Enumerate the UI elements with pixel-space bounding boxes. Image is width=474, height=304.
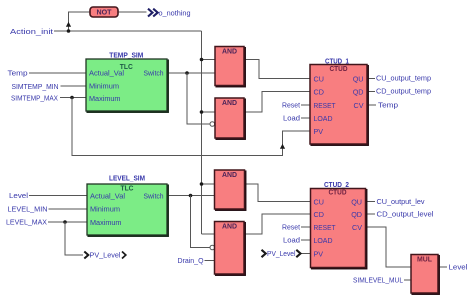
svg-text:CD_output_level: CD_output_level xyxy=(377,210,434,219)
CTUD_1 block xyxy=(310,56,368,145)
CTUD_2 block xyxy=(311,180,367,269)
svg-text:AND: AND xyxy=(222,98,237,107)
svg-text:CV: CV xyxy=(354,101,364,110)
svg-text:Load: Load xyxy=(283,236,300,245)
svg-text:AND: AND xyxy=(222,221,237,230)
svg-text:CD_output_temp: CD_output_temp xyxy=(376,87,431,96)
wire MUL output xyxy=(438,266,447,268)
AND gate U1 xyxy=(215,46,245,86)
wire PV_Level jump to CTUD_2 PV xyxy=(302,253,311,255)
svg-text:Maximum: Maximum xyxy=(90,218,122,227)
junction AND3 in1 xyxy=(200,182,204,186)
svg-text:Temp: Temp xyxy=(8,69,28,78)
svg-text:Minimum: Minimum xyxy=(89,82,119,91)
svg-text:CV: CV xyxy=(352,223,362,232)
svg-text:Reset: Reset xyxy=(282,101,300,110)
svg-text:Action_init: Action_init xyxy=(10,27,53,36)
svg-text:SIMLEVEL_MUL: SIMLEVEL_MUL xyxy=(353,276,403,285)
wire branch up to NOT input xyxy=(69,12,91,31)
wire AND1 out to CTUD_1 CU xyxy=(244,60,310,79)
svg-text:QU: QU xyxy=(351,198,362,207)
wire Load to CTUD_2 xyxy=(301,239,311,241)
svg-text:Maximum: Maximum xyxy=(89,94,121,103)
wire Level input xyxy=(29,195,87,197)
svg-text:Level: Level xyxy=(449,263,468,272)
svg-text:MUL: MUL xyxy=(417,254,433,263)
junction Switch level xyxy=(189,194,193,198)
svg-text:Temp: Temp xyxy=(378,101,398,110)
svg-text:Switch: Switch xyxy=(144,69,164,78)
svg-text:o_nothing: o_nothing xyxy=(159,8,191,17)
svg-text:RESET: RESET xyxy=(314,101,337,110)
LEVEL_SIM block xyxy=(87,173,168,236)
wire AND4 out to CTUD_2 CD xyxy=(244,214,311,234)
svg-text:QD: QD xyxy=(353,88,364,97)
svg-text:SIMTEMP_MAX: SIMTEMP_MAX xyxy=(11,93,58,102)
wire to AND1 in1 xyxy=(202,59,216,61)
svg-text:TEMP_SIM: TEMP_SIM xyxy=(109,50,143,59)
wire NOT output xyxy=(118,11,147,13)
MUL block xyxy=(411,254,439,294)
wire LEVEL_MAX to PV_Level jump xyxy=(65,222,83,255)
wire CTUD_1 QD output xyxy=(367,91,375,93)
svg-text:RESET: RESET xyxy=(314,223,337,232)
svg-text:AND: AND xyxy=(222,170,237,179)
svg-text:Actual_Val: Actual_Val xyxy=(90,191,125,200)
svg-text:CTUD: CTUD xyxy=(330,64,348,73)
wire SIMLEVEL_MUL to MUL in2 xyxy=(404,279,411,281)
wire CTUD_2 QD output xyxy=(366,213,376,215)
AND gate U2 xyxy=(215,98,245,139)
AND gate U3 xyxy=(215,170,246,210)
wire Reset to CTUD_2 xyxy=(301,226,311,228)
svg-text:Level: Level xyxy=(9,191,28,200)
svg-text:Minimum: Minimum xyxy=(90,205,120,214)
wire SIMTEMP_MIN input xyxy=(61,85,87,87)
wire CTUD_1 QU output xyxy=(367,78,375,80)
svg-text:NOT: NOT xyxy=(97,8,113,17)
wire to AND3 in1 xyxy=(202,183,215,185)
svg-text:LEVEL_MAX: LEVEL_MAX xyxy=(6,218,47,227)
AND gate U4 xyxy=(215,221,246,275)
svg-text:LEVEL_SIM: LEVEL_SIM xyxy=(109,173,145,182)
svg-text:PV: PV xyxy=(314,127,324,136)
negation circle AND4 in2 xyxy=(210,245,215,250)
junction SIMTEMP_MAX branch xyxy=(70,96,74,100)
jump label PV_Level (source) xyxy=(84,251,126,260)
wire Action_init vertical bus xyxy=(201,31,203,234)
wire Action_init horizontal xyxy=(54,30,202,32)
wire to AND4 in1 xyxy=(202,233,215,235)
svg-text:Switch: Switch xyxy=(144,191,164,200)
svg-text:CU_output_lev: CU_output_lev xyxy=(377,197,425,206)
svg-text:Actual_Val: Actual_Val xyxy=(89,69,124,78)
arrow up on NOT branch xyxy=(66,22,71,27)
wire LEVEL_MIN input xyxy=(49,208,88,210)
svg-text:PV: PV xyxy=(314,250,324,259)
wire CTUD_2 QU output xyxy=(366,201,376,203)
arrow up on PV wire xyxy=(280,144,285,149)
junction Switch temp xyxy=(185,71,189,75)
svg-text:QU: QU xyxy=(353,75,364,84)
junction AND2 in1 xyxy=(200,110,204,114)
wire CTUD_1 CV output xyxy=(367,104,376,106)
wire Switch level to AND4 in2 (negated) xyxy=(191,196,211,248)
svg-text:CU: CU xyxy=(314,198,324,207)
wire SIMTEMP_MAX to CTUD_1 PV xyxy=(72,98,310,156)
svg-text:CU_output_temp: CU_output_temp xyxy=(376,74,431,83)
wire AND2 out to CTUD_1 CD xyxy=(244,92,310,113)
svg-text:CD: CD xyxy=(314,88,324,97)
junction AND1 in1 xyxy=(200,58,204,62)
wire to AND2 in1 xyxy=(202,111,216,113)
svg-text:Drain_Q: Drain_Q xyxy=(178,256,204,265)
svg-text:Reset: Reset xyxy=(282,223,300,232)
jump label PV_Level (target) xyxy=(262,249,301,258)
wire Temp input xyxy=(29,72,86,74)
wire AND3 out to CTUD_2 CU xyxy=(245,184,311,202)
wire Reset to CTUD_1 xyxy=(301,104,310,106)
output marker o_nothing xyxy=(148,8,191,17)
svg-text:AND: AND xyxy=(222,46,237,55)
wire Drain_Q to AND4 in3 xyxy=(205,260,215,262)
NOT block xyxy=(90,7,118,17)
negation circle AND2 in2 xyxy=(210,122,215,127)
svg-text:PV_Level: PV_Level xyxy=(267,249,296,258)
junction Action_init branch xyxy=(67,29,71,33)
svg-text:LOAD: LOAD xyxy=(314,114,333,123)
wire LEVEL_SIM Switch to AND3 in2 xyxy=(167,195,215,197)
wire CTUD_2 CV to MUL in1 xyxy=(366,227,412,267)
svg-text:CD: CD xyxy=(314,210,324,219)
wire LEVEL_MAX input xyxy=(48,221,87,223)
wire TEMP_SIM Switch to AND1 in2 xyxy=(167,72,215,74)
svg-text:QD: QD xyxy=(351,210,362,219)
svg-text:CU: CU xyxy=(314,75,324,84)
wire Switch temp to AND2 in2 (negated) xyxy=(187,73,210,124)
junction LEVEL_MAX branch xyxy=(63,220,67,224)
TEMP_SIM block xyxy=(86,50,168,112)
svg-text:LOAD: LOAD xyxy=(314,236,333,245)
svg-text:LEVEL_MIN: LEVEL_MIN xyxy=(8,205,48,214)
svg-text:SIMTEMP_MIN: SIMTEMP_MIN xyxy=(12,82,59,91)
wire SIMTEMP_MAX input xyxy=(60,97,86,99)
svg-text:Load: Load xyxy=(283,114,300,123)
wire Load to CTUD_1 xyxy=(301,117,310,119)
svg-text:PV_Level: PV_Level xyxy=(90,251,121,260)
svg-text:CTUD: CTUD xyxy=(329,188,347,197)
